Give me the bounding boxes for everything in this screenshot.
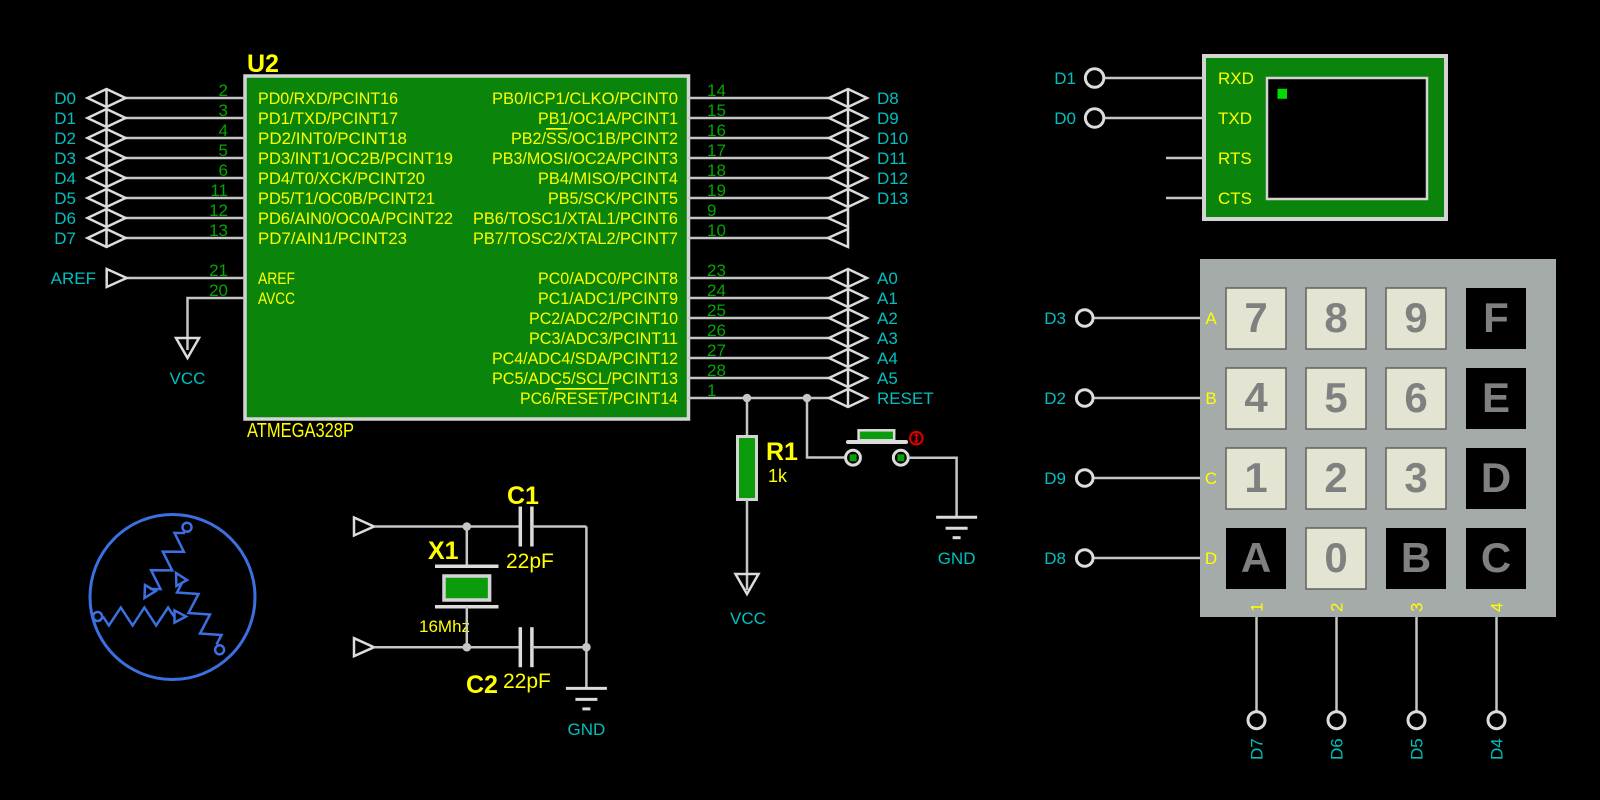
svg-text:PB0/ICP1/CLKO/PCINT0: PB0/ICP1/CLKO/PCINT0 [492,89,678,108]
svg-text:D3: D3 [54,149,76,168]
svg-text:AREF: AREF [51,269,96,288]
svg-text:D5: D5 [1408,738,1427,760]
wire U2 PB3 to D11 [689,157,830,160]
terminal D3 (circle) [1076,310,1093,327]
svg-text:1: 1 [1244,454,1267,501]
svg-text:7: 7 [1244,294,1267,341]
keypad key 3 [1386,448,1446,509]
svg-text:PC3/ADC3/PCINT11: PC3/ADC3/PCINT11 [529,329,678,348]
svg-text:R1: R1 [766,438,798,466]
svg-text:D11: D11 [877,149,907,168]
svg-text:D5: D5 [54,189,76,208]
svg-text:D8: D8 [1044,549,1066,568]
svg-text:PC6/RESET/PCINT14: PC6/RESET/PCINT14 [520,389,678,408]
svg-text:ATMEGA328P: ATMEGA328P [247,420,354,442]
svg-text:PD0/RXD/PCINT16: PD0/RXD/PCINT16 [258,89,398,108]
keypad key 5 [1306,368,1366,429]
svg-text:CTS: CTS [1218,189,1252,208]
terminal D0 (circle) [1085,109,1103,127]
wire AVCC to VCC symbol [188,298,246,350]
svg-text:A1: A1 [877,289,898,308]
wire D9 to keypad [1093,477,1200,480]
wire U2 PC1 to A1 [689,297,830,300]
terminal A4 (bidirectional diamond) [829,349,867,367]
svg-text:D1: D1 [1054,69,1076,88]
wire D4 to U2 pin 6 [126,177,246,180]
terminal D8 (bidirectional diamond) [829,89,867,107]
capacitor C1 [520,507,532,547]
terminal D13 (bidirectional diamond) [829,189,867,207]
svg-text:D: D [1481,454,1511,501]
svg-text:RESET: RESET [877,389,934,408]
svg-text:D4: D4 [1488,738,1507,760]
terminal D6 (bidirectional diamond) [88,209,126,227]
capacitor C2 [520,627,532,667]
keypad key D [1466,448,1526,509]
svg-text:E: E [1482,374,1510,421]
terminal D7 (circle) [1248,712,1265,729]
terminal D4 (bidirectional diamond) [88,169,126,187]
terminal RESET (bidirectional diamond) [829,389,867,407]
wire D0 to U2 pin 2 [126,97,246,100]
terminal D5 (circle) [1408,712,1425,729]
svg-text:PD2/INT0/PCINT18: PD2/INT0/PCINT18 [258,129,407,148]
keypad key 8 [1306,288,1366,349]
svg-text:C1: C1 [507,482,539,510]
svg-text:PB2/SS/OC1B/PCINT2: PB2/SS/OC1B/PCINT2 [511,129,678,148]
keypad key 4 [1226,368,1286,429]
svg-text:PC1/ADC1/PCINT9: PC1/ADC1/PCINT9 [538,289,678,308]
svg-text:2: 2 [1324,454,1347,501]
button interactive actuator marker [910,432,923,445]
power symbol VCC (AVCC) [176,338,199,358]
svg-text:C: C [1481,534,1511,581]
wire D3 to keypad [1093,317,1200,320]
svg-text:16Mhz: 16Mhz [419,617,470,636]
svg-text:VCC: VCC [730,609,766,628]
svg-text:PB6/TOSC1/XTAL1/PCINT6: PB6/TOSC1/XTAL1/PCINT6 [473,209,678,228]
svg-text:D3: D3 [1044,309,1066,328]
wire keypad column 2 to D6 [1335,617,1338,712]
wire D7 to U2 pin 13 [126,237,246,240]
svg-text:AREF: AREF [258,269,295,288]
svg-text:1: 1 [1248,603,1267,612]
wire ground rail [585,527,588,689]
wire D1 to RXD [1104,77,1204,80]
wire U2 PB2 to D10 [689,137,830,140]
wire U2 XTAL1 pin 9 [689,217,829,220]
svg-text:4: 4 [1244,374,1268,421]
svg-text:PC0/ADC0/PCINT8: PC0/ADC0/PCINT8 [538,269,678,288]
wire D0 to TXD [1104,117,1204,120]
terminal D9 (bidirectional diamond) [829,109,867,127]
svg-text:PD6/AIN0/OC0A/PCINT22: PD6/AIN0/OC0A/PCINT22 [258,209,453,228]
wire crystal top stub [466,527,469,567]
svg-text:D6: D6 [54,209,76,228]
terminal D2 (circle) [1076,390,1093,407]
terminal D3 (bidirectional diamond) [88,149,126,167]
svg-text:D2: D2 [54,129,76,148]
svg-text:4: 4 [1488,603,1507,612]
wire U2 PC3 to A3 [689,337,830,340]
wire U2 PC2 to A2 [689,317,830,320]
svg-text:U2: U2 [247,50,279,78]
U2 pin name labels right [473,89,678,408]
wire AREF to U2 pin 21 [127,277,245,280]
keypad key 9 [1386,288,1446,349]
wire D2 to keypad [1093,397,1200,400]
svg-text:D9: D9 [877,109,899,128]
svg-text:3: 3 [1408,603,1427,612]
wire R1 bottom to VCC [746,500,749,591]
wire D6 to U2 pin 12 [126,217,246,220]
terminal D1 (bidirectional diamond) [88,109,126,127]
keypad key C [1466,528,1526,589]
svg-text:6: 6 [1404,374,1427,421]
terminal D12 (bidirectional diamond) [829,169,867,187]
terminal XTAL1 (input arrow) [828,209,848,227]
terminal D2 (bidirectional diamond) [88,129,126,147]
svg-text:5: 5 [1324,374,1347,421]
svg-text:A0: A0 [877,269,898,288]
virtual terminal pin labels [1218,69,1254,208]
svg-text:2: 2 [1328,603,1347,612]
svg-text:22pF: 22pF [503,670,551,693]
svg-text:PC4/ADC4/SDA/PCINT12: PC4/ADC4/SDA/PCINT12 [492,349,678,368]
svg-text:VCC: VCC [170,369,206,388]
U2 pin numbers right [707,81,726,400]
keypad key E [1466,368,1526,429]
svg-text:0: 0 [1324,534,1347,581]
svg-text:D2: D2 [1044,389,1066,408]
svg-text:AVCC: AVCC [258,289,295,308]
svg-text:D6: D6 [1328,738,1347,760]
keypad body [1200,259,1556,617]
wire U2 PC0 to A0 [689,277,830,280]
svg-text:D13: D13 [877,189,908,208]
virtual terminal body [1204,56,1446,219]
terminal D7 (bidirectional diamond) [88,229,126,247]
button actuator bar [848,440,906,444]
svg-text:C: C [1205,469,1217,488]
svg-text:TXD: TXD [1218,109,1252,128]
virtual terminal cursor [1278,89,1288,99]
svg-text:PB1/OC1A/PCINT1: PB1/OC1A/PCINT1 [538,109,678,128]
keypad key 6 [1386,368,1446,429]
svg-text:A4: A4 [877,349,898,368]
wire XTAL2 net bottom [374,646,520,649]
svg-text:A2: A2 [877,309,898,328]
keypad key F [1466,288,1526,349]
svg-text:PC2/ADC2/PCINT10: PC2/ADC2/PCINT10 [529,309,678,328]
svg-text:8: 8 [1324,294,1347,341]
terminal A2 (bidirectional diamond) [829,309,867,327]
wire C2 right to rail [532,646,587,649]
terminal A0 (bidirectional diamond) [829,269,867,287]
wire U2 PC4 to A4 [689,357,830,360]
wire XTAL1 net top [374,525,520,528]
wire U2 PB0 to D8 [689,97,830,100]
terminal D6 (circle) [1328,712,1345,729]
keypad key 1 [1226,448,1286,509]
svg-text:PD7/AIN1/PCINT23: PD7/AIN1/PCINT23 [258,229,407,248]
ground symbol (button) [936,517,977,538]
svg-text:PB4/MISO/PCINT4: PB4/MISO/PCINT4 [538,169,678,188]
wire button to GND [909,458,957,517]
svg-text:B: B [1401,534,1431,581]
svg-text:PD1/TXD/PCINT17: PD1/TXD/PCINT17 [258,109,398,128]
svg-text:D1: D1 [54,109,76,128]
svg-text:PD3/INT1/OC2B/PCINT19: PD3/INT1/OC2B/PCINT19 [258,149,453,168]
wire D5 to U2 pin 11 [126,197,246,200]
svg-text:F: F [1483,294,1509,341]
svg-text:3: 3 [1404,454,1427,501]
wire U2 PB1 to D9 [689,117,830,120]
svg-text:9: 9 [1404,294,1427,341]
svg-text:D9: D9 [1044,469,1066,488]
svg-text:A: A [1241,534,1271,581]
wire keypad column 3 to D5 [1415,617,1418,712]
U2 pin name labels left [258,89,453,308]
wire D8 to keypad [1093,557,1200,560]
svg-text:X1: X1 [428,537,459,565]
wire U2 PB4 to D12 [689,177,830,180]
terminal XTAL2 (input arrow) [828,229,848,247]
terminal D10 (bidirectional diamond) [829,129,867,147]
svg-text:1k: 1k [768,466,788,486]
wire U2 PC5 to A5 [689,377,830,380]
svg-text:A: A [1205,309,1217,328]
resistor R1 [738,437,757,500]
svg-text:D4: D4 [54,169,76,188]
virtual terminal screen [1267,78,1427,199]
ground symbol (crystal) [566,688,607,709]
svg-text:PD4/T0/XCK/PCINT20: PD4/T0/XCK/PCINT20 [258,169,425,188]
wire keypad column 4 to D4 [1495,617,1498,712]
svg-text:D: D [1205,549,1217,568]
junction crystal top [463,522,472,531]
wire U2 PB5 to D13 [689,197,830,200]
svg-text:D12: D12 [877,169,908,188]
svg-text:PB3/MOSI/OC2A/PCINT3: PB3/MOSI/OC2A/PCINT3 [492,149,678,168]
svg-text:D0: D0 [1054,109,1076,128]
terminal XTAL2 input arrow (crystal net bottom) [354,638,374,656]
wire RESET branch to button [807,398,845,458]
IC U2 ATMEGA328P body [245,76,689,419]
terminal D5 (bidirectional diamond) [88,189,126,207]
terminal D11 (bidirectional diamond) [829,149,867,167]
wire D2 to U2 pin 4 [126,137,246,140]
keypad key B [1386,528,1446,589]
terminal AREF (input arrow) [107,269,127,287]
keypad key 2 [1306,448,1366,509]
terminal D0 (bidirectional diamond) [88,89,126,107]
junction on RESET net at R1 [743,394,752,403]
terminal D8 (circle) [1076,550,1093,567]
terminal A1 (bidirectional diamond) [829,289,867,307]
svg-text:RTS: RTS [1218,149,1252,168]
wire C1 right to rail [532,525,587,528]
terminal D1 (circle) [1085,69,1103,87]
svg-text:PC5/ADC5/SCL/PCINT13: PC5/ADC5/SCL/PCINT13 [492,369,678,388]
power symbol VCC (R1) [736,574,759,594]
junction crystal bottom [463,643,472,652]
svg-text:A3: A3 [877,329,898,348]
terminal D9 (circle) [1076,470,1093,487]
terminal D4 (circle) [1488,712,1505,729]
wire D3 to U2 pin 5 [126,157,246,160]
wire CTS stub [1166,197,1204,200]
wire D1 to U2 pin 3 [126,117,246,120]
keypad key A [1226,528,1286,589]
svg-text:GND: GND [568,720,606,739]
wire crystal bottom stub [466,607,469,647]
3-phase motor symbol [90,515,255,680]
svg-text:D8: D8 [877,89,899,108]
wire RTS stub [1166,157,1204,160]
svg-text:GND: GND [938,549,976,568]
svg-text:PB7/TOSC2/XTAL2/PCINT7: PB7/TOSC2/XTAL2/PCINT7 [473,229,678,248]
junction ground rail at C2 [582,643,591,652]
terminal XTAL1 input arrow (crystal net top) [354,518,374,536]
svg-text:C2: C2 [466,671,498,699]
button right terminal pin [893,450,908,465]
junction on RESET net at button branch [803,394,812,403]
terminal A3 (bidirectional diamond) [829,329,867,347]
svg-text:22pF: 22pF [506,550,554,573]
wire R1 top to RESET net [746,398,749,436]
button cap [859,430,895,440]
terminal A5 (bidirectional diamond) [829,369,867,387]
svg-text:B: B [1205,389,1216,408]
svg-text:D10: D10 [877,129,908,148]
svg-text:A5: A5 [877,369,898,388]
wire U2 PC6 to RESET [689,397,830,400]
wire keypad column 1 to D7 [1255,617,1258,712]
svg-text:PD5/T1/OC0B/PCINT21: PD5/T1/OC0B/PCINT21 [258,189,435,208]
svg-text:D7: D7 [1248,738,1267,760]
svg-text:RXD: RXD [1218,69,1254,88]
U2 pin numbers left [209,81,228,300]
svg-text:D0: D0 [54,89,76,108]
keypad key 0 [1306,528,1366,589]
crystal X1 [435,566,499,607]
wire U2 XTAL2 pin 10 [689,237,829,240]
keypad key 7 [1226,288,1286,349]
svg-text:PB5/SCK/PCINT5: PB5/SCK/PCINT5 [548,189,678,208]
button left terminal pin [846,450,861,465]
svg-text:D7: D7 [54,229,76,248]
